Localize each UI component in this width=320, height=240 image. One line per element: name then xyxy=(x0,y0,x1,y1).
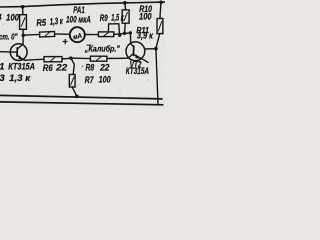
svg-text:100 мкА: 100 мкА xyxy=(66,14,91,24)
svg-text:22: 22 xyxy=(99,62,110,73)
svg-text:3,9 к: 3,9 к xyxy=(137,31,153,41)
svg-text:1,3 к: 1,3 к xyxy=(49,16,63,27)
svg-text:КТ315А: КТ315А xyxy=(8,62,35,73)
svg-text:КТ315А: КТ315А xyxy=(126,66,149,76)
svg-text:+: + xyxy=(62,37,68,47)
svg-text:100: 100 xyxy=(139,11,152,21)
svg-text:100: 100 xyxy=(99,75,112,86)
svg-text:1,5 к: 1,5 к xyxy=(111,13,124,23)
svg-text:1: 1 xyxy=(0,61,4,71)
svg-text:R5: R5 xyxy=(36,18,47,30)
svg-text:ст. 0”: ст. 0” xyxy=(0,31,18,41)
svg-text:100: 100 xyxy=(6,13,19,23)
svg-text:–: – xyxy=(86,39,91,49)
svg-text:1,3 к: 1,3 к xyxy=(9,73,31,83)
svg-text:R8: R8 xyxy=(86,63,95,74)
svg-text:22: 22 xyxy=(55,63,68,74)
svg-text:R9: R9 xyxy=(100,13,108,23)
svg-text:4: 4 xyxy=(0,13,2,23)
svg-text:R7: R7 xyxy=(85,75,94,86)
svg-text:R6: R6 xyxy=(43,63,53,74)
